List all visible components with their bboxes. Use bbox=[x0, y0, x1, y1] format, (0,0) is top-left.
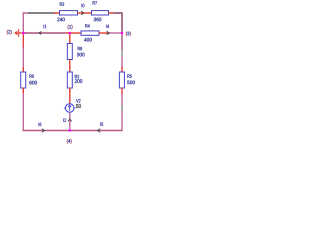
wire right column maroon upper bbox=[121, 33, 123, 50]
node 2 label bbox=[7, 30, 12, 35]
wire pin below R5 red bbox=[121, 88, 123, 95]
wire left column pink bbox=[22, 47, 24, 68]
wire R3 to R7 red bbox=[78, 12, 93, 14]
wire top gray segment bbox=[28, 12, 55, 14]
source V2 bbox=[64, 99, 81, 112]
wire right column gray segment bbox=[121, 49, 123, 57]
resistor R3 bbox=[57, 2, 77, 21]
junction node 3 bbox=[121, 32, 123, 34]
wire top-right corner maroon bbox=[114, 13, 123, 33]
wire R2 to V2 red bbox=[69, 88, 71, 105]
wire bottom right bbox=[70, 130, 123, 132]
resistor R4 bbox=[81, 24, 99, 41]
wire top-left corner pink bbox=[23, 13, 29, 33]
wire R8 to R2 red bbox=[69, 60, 71, 73]
wire right column gray segment lower bbox=[121, 105, 123, 112]
wire R4 to I4 red bbox=[99, 32, 110, 34]
wire row2 left pink bbox=[23, 32, 66, 34]
current arrow I1 bbox=[39, 25, 46, 35]
resistor R6 bbox=[21, 72, 37, 88]
current arrow I6 bbox=[39, 123, 45, 133]
node 2 external arrow red bbox=[14, 29, 23, 37]
wire bottom left bbox=[23, 130, 70, 132]
current arrow I4 bbox=[106, 25, 109, 35]
node 1 label bbox=[68, 25, 73, 30]
wire middle column upper red bbox=[69, 33, 71, 44]
wire below V2 pink bbox=[69, 112, 71, 131]
resistor R2 bbox=[67, 72, 82, 88]
current arrow I0 bbox=[81, 4, 84, 15]
junction node 4 bbox=[69, 129, 71, 131]
wire pin above R5 red bbox=[121, 67, 123, 73]
current arrow I5 bbox=[98, 122, 104, 132]
wire pin right of R7 red bbox=[109, 12, 115, 14]
wire pin below R6 red bbox=[22, 88, 24, 95]
resistor R5 bbox=[119, 72, 134, 88]
node 3 label bbox=[126, 32, 131, 37]
node 4 label bbox=[67, 139, 72, 144]
wire right column pink to bottom corner bbox=[121, 111, 123, 132]
wire pin above R6 red bbox=[22, 67, 24, 73]
wire pin left of R3 bbox=[54, 12, 60, 14]
junction node 2 bbox=[22, 32, 24, 34]
wire I4 to node3 maroon bbox=[110, 32, 123, 34]
wire left column upper red bbox=[22, 33, 24, 48]
current arrow I2 bbox=[63, 118, 71, 121]
wire left column lower pink to bottom corner bbox=[22, 93, 24, 131]
wire row2 node1 to R4 red bbox=[66, 32, 82, 34]
resistor R8 bbox=[67, 44, 84, 60]
wire right column lower pink to bottom corner bbox=[121, 93, 123, 106]
resistor R7 bbox=[92, 1, 109, 21]
wire right column pink bbox=[121, 56, 123, 68]
junction node 1 bbox=[69, 32, 71, 34]
